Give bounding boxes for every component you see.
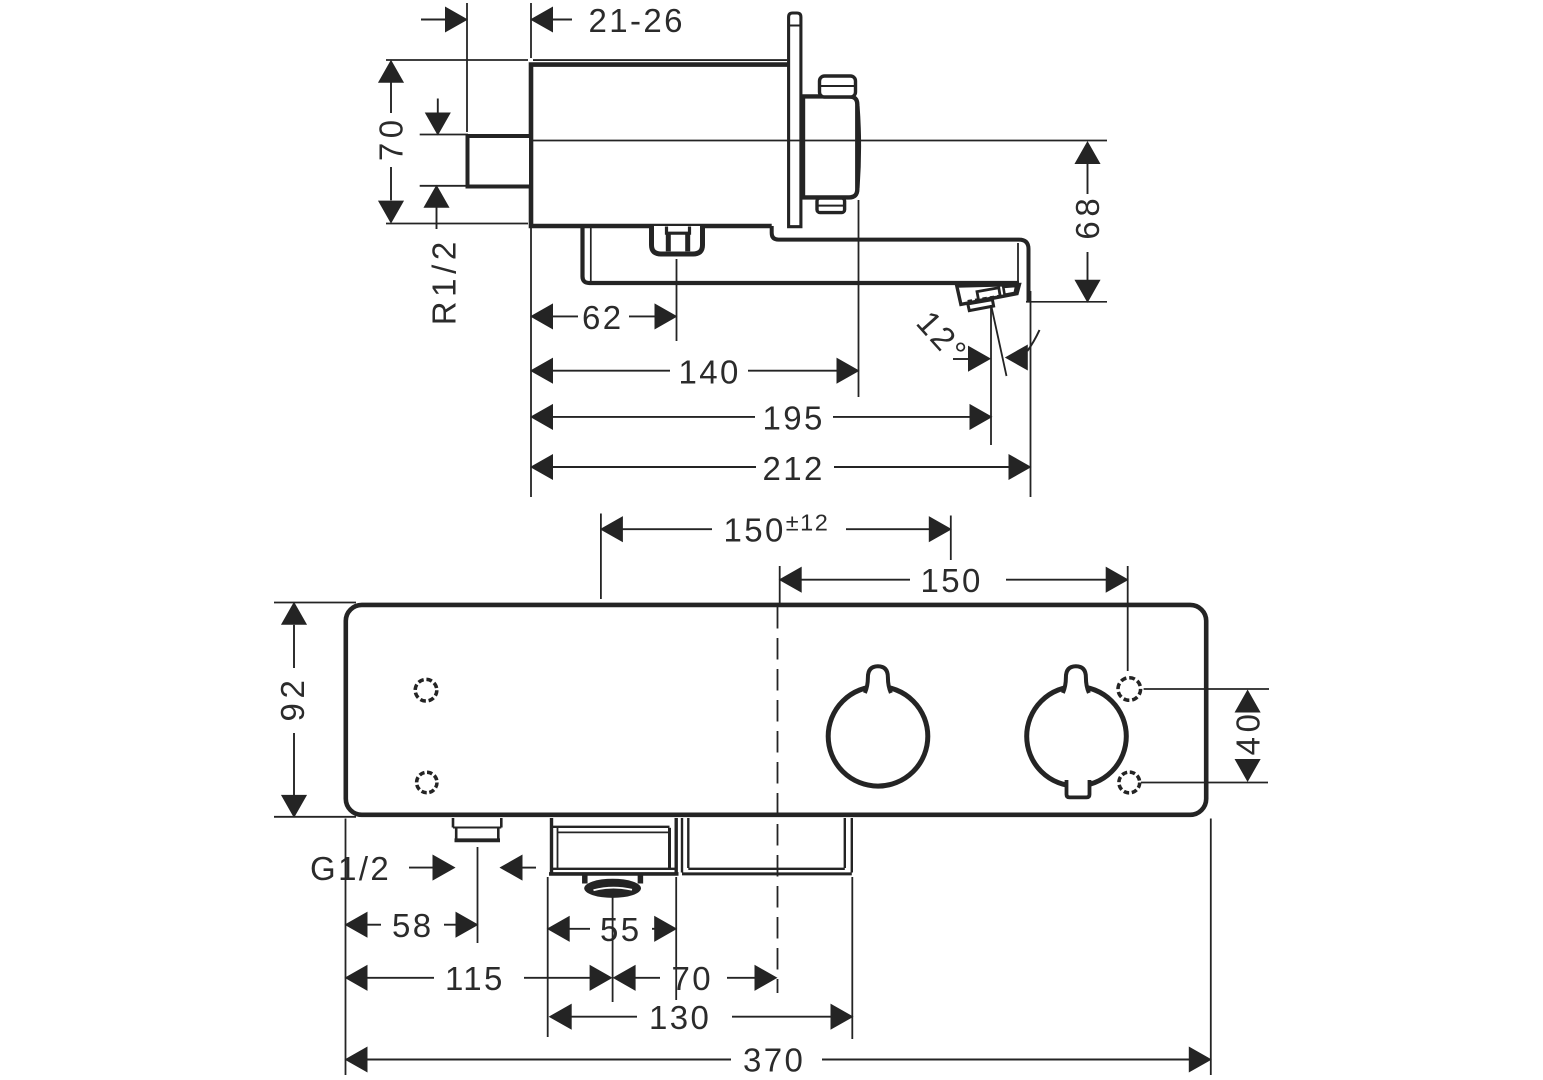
dimension 195: [531, 405, 992, 429]
svg-text:140: 140: [679, 354, 741, 391]
svg-text:212: 212: [763, 450, 825, 487]
side view: aerator mouth extension line for 68: [1026, 301, 1107, 303]
side view: thermostat body: [531, 60, 789, 226]
side view: knob bottom tab: [817, 198, 845, 213]
front view: left knob circle: [828, 687, 928, 787]
dimension 150 plus-minus 12: [601, 514, 951, 600]
front view: right knob circle: [1027, 687, 1127, 787]
svg-text:130: 130: [649, 999, 711, 1036]
svg-text:21-26: 21-26: [589, 2, 685, 39]
dimension 70 vertical: [379, 60, 528, 224]
side view: thermostat knob: [803, 96, 860, 197]
dimension 62: [531, 259, 677, 341]
side view: 12 deg tilt line: [992, 307, 1007, 376]
dimension 21-26: [421, 3, 572, 132]
front view: left knob top stem: [865, 666, 891, 693]
front view: dashed center line: [777, 607, 779, 993]
svg-text:R1/2: R1/2: [426, 237, 463, 325]
side view: outlet nut under body: [652, 226, 703, 254]
svg-text:12°: 12°: [910, 304, 976, 371]
dimension 140: [531, 200, 859, 397]
side view: knob top tab: [820, 76, 856, 97]
dimension 55: [548, 877, 677, 1037]
svg-text:70: 70: [373, 115, 410, 161]
side view: aerator vertical extension line: [990, 305, 992, 445]
dimension 92 vertical: [274, 603, 356, 817]
dimension 68 vertical: [1075, 142, 1099, 302]
dimension 40 vertical right: [1141, 689, 1269, 783]
svg-text:92: 92: [274, 676, 311, 722]
dimension 58: [346, 847, 478, 943]
front view: bath outlet box: [549, 818, 679, 874]
front view: faceplate body: [346, 605, 1206, 815]
R1/2 pointer arrows: [420, 99, 468, 230]
svg-text:195: 195: [763, 400, 825, 437]
side view: wall mounting plate: [789, 13, 801, 227]
front view: screw hole bottom-left dashed: [417, 772, 437, 792]
svg-text:115: 115: [445, 960, 505, 997]
dimension 70 lower: [614, 966, 777, 990]
svg-text:55: 55: [600, 911, 642, 948]
front view: screw hole bottom-right dashed: [1119, 772, 1140, 793]
svg-text:150: 150: [921, 562, 983, 599]
front view: right knob top stem: [1063, 666, 1089, 693]
side view: spout body and underside: [583, 228, 1020, 283]
dimension 130: [550, 877, 853, 1039]
front view: right knob bottom tab: [1067, 780, 1090, 797]
side view: R1/2 wall connector: [468, 136, 532, 187]
label G1/2 with leader arrows: [409, 855, 536, 879]
dimension 212: [531, 228, 1031, 497]
side view: tilted aerator at spout tip: [957, 285, 1020, 311]
svg-text:58: 58: [392, 907, 434, 944]
dimension 12 deg angle: [953, 330, 1040, 371]
svg-text:G1/2: G1/2: [310, 850, 391, 887]
svg-text:150±12: 150±12: [724, 510, 830, 549]
side view: spout upper step: [772, 226, 1019, 240]
front view: G1/2 shower outlet stub: [453, 818, 501, 840]
dimension 150: [780, 566, 1128, 671]
front view: spout escutcheon box: [682, 818, 852, 874]
dimension 115: [346, 819, 613, 1076]
front view: screw hole top-right dashed: [1118, 678, 1141, 701]
svg-text:62: 62: [582, 299, 624, 336]
dimension 370: [346, 819, 1211, 1076]
side view: spout tip: [1018, 240, 1029, 302]
side view: center axis line: [531, 140, 1107, 142]
svg-text:70: 70: [672, 960, 714, 997]
svg-text:370: 370: [743, 1042, 805, 1079]
svg-text:68: 68: [1069, 194, 1106, 240]
front view: screw hole top-left dashed: [415, 679, 437, 701]
svg-text:40: 40: [1230, 709, 1267, 755]
front view: aerator oval under outlet box: [584, 875, 641, 898]
